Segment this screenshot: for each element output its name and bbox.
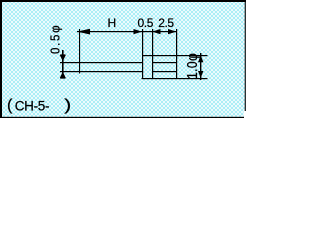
svg-text:(: ( <box>7 97 13 114</box>
0.5 dia lower arrow <box>60 72 66 79</box>
svg-text:1.0φ: 1.0φ <box>184 53 200 79</box>
background hatch <box>0 0 246 118</box>
extension line C / collar right edge <box>152 29 153 79</box>
svg-text:2.5: 2.5 <box>158 16 174 30</box>
extension line D / body right end <box>176 29 177 79</box>
svg-text:0.5φ: 0.5φ <box>48 24 63 54</box>
1.0 dia lower arrow <box>198 71 203 78</box>
body top edge + 1.0 dim tick <box>142 55 208 56</box>
0.5 dia upper arrow <box>60 54 66 61</box>
hole top edge <box>152 62 177 63</box>
arrow left of 2.5 dimension <box>152 29 161 34</box>
arrow left of H dimension <box>77 29 90 35</box>
frame top border <box>0 0 246 2</box>
svg-text:H: H <box>108 16 117 30</box>
1.0 dia upper arrow <box>198 55 203 62</box>
dimension line H / 0.5 / 2.5 <box>77 31 177 32</box>
body bottom edge + 1.0 dim tick <box>142 78 208 79</box>
svg-text:0.5: 0.5 <box>138 16 154 30</box>
rod bottom edge <box>60 71 142 72</box>
extension line B / collar left edge <box>142 29 143 79</box>
svg-text:): ) <box>64 97 71 114</box>
svg-text:CH-5-: CH-5- <box>15 99 50 114</box>
frame left border <box>0 0 2 118</box>
rod top edge <box>60 62 142 63</box>
arrow right of H dimension <box>134 29 143 34</box>
frame right border <box>245 0 246 111</box>
1.0 dia dimension line <box>200 53 201 80</box>
extension line A (left end of H) <box>79 29 80 74</box>
hole bottom edge <box>152 71 177 72</box>
arrow right of 2.5 dimension <box>168 29 177 34</box>
frame bottom border <box>0 117 244 118</box>
0.5 dia dimension line <box>62 50 64 78</box>
